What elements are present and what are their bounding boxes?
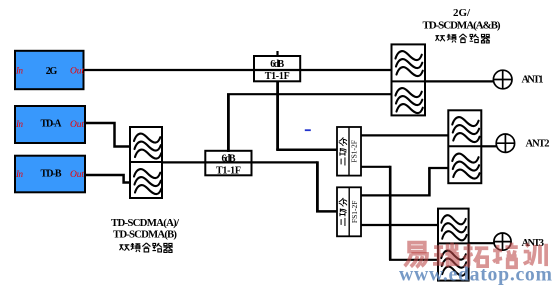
svg-text:TD-SCDMA(B): TD-SCDMA(B) [113,228,177,240]
antenna ANT2 [496,134,515,153]
svg-text:2G: 2G [46,66,58,77]
wire splitter1 out B down to ANT3 combiner [361,166,390,168]
combiner K2 (2G/TD, top right) [392,44,426,115]
wire left combiner out through coupler2 [161,161,252,163]
wire coupler2 coupled port up to 2G/TD combiner [227,94,230,153]
wire 2G out to 2G/TD combiner [84,69,392,71]
splitter S2 (FS1-2F) [337,187,361,236]
source box 2G [15,51,84,89]
coupler U1 6dB T1-1F [254,56,300,82]
wire splitter2 out A up to ANT2 combiner [361,194,430,196]
svg-text:FS1-2F: FS1-2F [350,140,359,163]
antenna ANT1 [493,70,512,89]
wire combiner to ANT1 [425,80,494,82]
wire TD-A out to left combiner [84,123,131,147]
wire combiner to ANT3 [468,242,495,244]
antenna ANT3 [494,233,512,251]
svg-text:2G/: 2G/ [453,7,471,19]
blue dash mark [305,129,311,131]
coupler U2 6dB T1-1F [205,151,251,177]
svg-text:In: In [15,119,24,129]
wire coupler2 out to splitter2 [251,161,318,163]
wire coupler1 top stub (isolated port) [276,51,278,57]
wire coupler1 coupled port down to splitter1 [276,81,279,151]
splitter S1 (FS1-2F) [337,127,361,176]
svg-text:Out: Out [70,120,84,130]
svg-text:In: In [15,66,24,76]
svg-text:ANT1: ANT1 [522,75,544,86]
svg-text:T1-1F: T1-1F [216,166,241,177]
source box TD-A [15,106,85,143]
svg-text:TD-SCDMA(A&B): TD-SCDMA(A&B) [423,20,501,32]
svg-text:Out: Out [70,170,84,180]
svg-text:In: In [15,169,24,179]
svg-text:www.edatop.com: www.edatop.com [399,263,553,285]
combiner K1 (TD-SCDMA A/B) [130,127,162,198]
combiner K4 (ANT3) [438,209,469,281]
svg-text:Out: Out [70,67,84,77]
wire splitter1 out A to ANT2 combiner [361,134,449,136]
wire splitter2 out B to ANT3 combiner [361,224,439,226]
wire TD-B out to left combiner [84,175,131,183]
watermark red hanzi [405,243,547,268]
svg-text:TD-SCDMA(A)/: TD-SCDMA(A)/ [111,217,180,229]
svg-text:6dB: 6dB [270,59,284,70]
combiner K3 (ANT2) [448,110,481,183]
source box TD-B [15,156,85,193]
svg-text:TD-B: TD-B [41,169,62,180]
svg-text:FS1-2F: FS1-2F [350,201,359,224]
wire combiner to ANT2 [481,145,497,147]
svg-text:ANT2: ANT2 [526,139,550,150]
svg-text:T1-1F: T1-1F [265,71,290,82]
svg-text:TD-A: TD-A [41,119,63,130]
svg-text:6dB: 6dB [222,153,236,164]
